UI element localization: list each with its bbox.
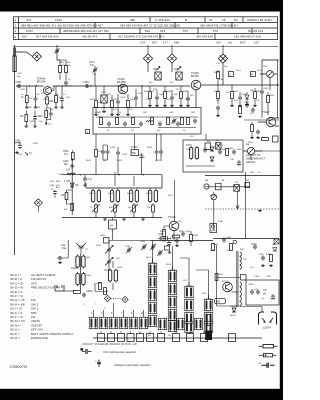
- right rail y120: [244, 119, 279, 121]
- trim box L402: [251, 72, 256, 77]
- varicap pair: [76, 243, 86, 254]
- svg-text:436 879 549: 436 879 549: [196, 35, 213, 39]
- svg-text:4,7μH: 4,7μH: [64, 181, 71, 183]
- module pin 1: [86, 130, 90, 134]
- svg-text:GR30: GR30: [230, 315, 236, 317]
- slug square 3: [118, 334, 125, 342]
- resistor R453: [25, 115, 28, 122]
- svg-text:SK-R =: SK-R =: [10, 336, 20, 340]
- svg-text:S404: S404: [146, 193, 152, 195]
- resistor R307: [212, 244, 215, 251]
- svg-text:4,7p: 4,7p: [88, 179, 93, 181]
- svg-text:185 348 040 27 419: 185 348 040 27 419: [234, 35, 261, 39]
- svg-text:C476: C476: [137, 93, 143, 95]
- wire T2 out down: [141, 86, 143, 108]
- wire inside box lower: [98, 127, 196, 129]
- svg-text:178: 178: [140, 40, 145, 44]
- resistor R403: [231, 92, 234, 99]
- svg-text:SK-K: SK-K: [202, 293, 208, 295]
- svg-text:R401: R401: [214, 72, 220, 74]
- legend capacitor symbol: [262, 363, 275, 368]
- capacitor C486 inside: [176, 121, 180, 126]
- legend resistor symbol: [263, 345, 274, 348]
- box SK block: [216, 183, 222, 190]
- electrolytic capacitor symbol: [97, 360, 101, 368]
- svg-text:C465: C465: [15, 141, 21, 143]
- resistor R304 top right: [262, 138, 269, 141]
- slug square 9: [187, 334, 194, 342]
- resistor R401: [217, 72, 220, 79]
- riser x162 to IF rail: [161, 175, 163, 188]
- variable capacitor C1b: [107, 259, 111, 264]
- switch unit SK-4: [119, 317, 127, 328]
- resistor R483 inside: [167, 118, 170, 125]
- diamond small left: [104, 295, 110, 301]
- slug square 10: [201, 334, 208, 342]
- svg-text:BF195C: BF195C: [117, 80, 127, 84]
- svg-text:R492: R492: [166, 91, 172, 93]
- trimmer C453: [55, 48, 59, 53]
- svg-text:R307: R307: [213, 244, 219, 246]
- resistor R491: [149, 92, 152, 99]
- capacitor C494: [203, 147, 207, 152]
- resistor R493: [180, 92, 183, 99]
- grounds row3: [54, 106, 58, 109]
- pin numbers above: [91, 313, 144, 315]
- capacitor C496: [232, 149, 236, 154]
- svg-text:C433: C433: [125, 246, 131, 248]
- svg-text:EM: EM: [205, 180, 208, 182]
- svg-text:R491: R491: [144, 91, 150, 93]
- svg-text:523: 523: [160, 29, 165, 33]
- svg-text:SK-G: SK-G: [146, 257, 152, 259]
- connector circle left: [204, 184, 209, 189]
- IF transformer S404: [148, 189, 157, 203]
- switch column SK-I: [185, 286, 193, 297]
- slug square 4: [127, 334, 134, 342]
- staple arrows: [262, 318, 273, 323]
- capacitor C470 pair: [155, 149, 159, 154]
- trimmer C434: [142, 244, 146, 249]
- svg-text:AM/FM 1 BL W-BY: AM/FM 1 BL W-BY: [247, 18, 272, 22]
- svg-text:ADJUST TO: ADJUST TO: [246, 153, 260, 157]
- svg-text:TS427: TS427: [262, 110, 270, 114]
- right vertical x277.5: [277, 60, 279, 118]
- grounds T3 stage: [148, 104, 152, 107]
- electrolytic C332: [167, 241, 171, 247]
- junction dot on bus: [19, 142, 20, 143]
- rail continues: [213, 84, 279, 86]
- svg-text:S441: S441: [96, 245, 102, 247]
- box EA left: [205, 143, 211, 150]
- capacitor C401: [216, 105, 220, 110]
- capacitor C466 hanging: [101, 149, 105, 154]
- switch column SK-H: [168, 270, 176, 281]
- transistor T1: [44, 87, 52, 95]
- svg-text:R413: R413: [117, 160, 123, 162]
- transistor T2: [118, 84, 128, 94]
- svg-text:EXT: EXT: [240, 40, 246, 44]
- svg-text:C415: C415: [155, 160, 161, 162]
- grounds row1: [25, 106, 29, 109]
- resistor R462: [65, 193, 68, 200]
- resistor R455: [55, 96, 58, 103]
- svg-text:R311: R311: [218, 274, 224, 276]
- svg-text:C304: C304: [248, 284, 254, 286]
- capacitor C463: [70, 163, 74, 168]
- svg-text:BF194b: BF194b: [37, 81, 46, 84]
- svg-text:507 424 420 424: 507 424 420 424: [36, 35, 59, 39]
- svg-text:Film foil/polyester capacitor: Film foil/polyester capacitor: [104, 350, 137, 354]
- switch column SK-K: [204, 299, 212, 310]
- resistor R454b: [45, 111, 48, 118]
- wire full width under table: [14, 46, 279, 48]
- osc coil S443: [108, 269, 117, 283]
- capacitor C493: [186, 96, 190, 101]
- resistor R402: [217, 92, 220, 99]
- svg-text:AF117: AF117: [269, 117, 276, 120]
- svg-text:R403: R403: [233, 91, 239, 93]
- svg-text:C412: C412: [97, 151, 103, 153]
- rail y240 mid: [150, 240, 213, 242]
- resistor R421: [95, 205, 98, 212]
- svg-text:489 481+467 468 462 471 416: 489 481+467 468 462 471 416 457/436 434 …: [21, 23, 103, 27]
- AGC label cluster: [49, 181, 61, 191]
- mixer riser: [174, 180, 176, 221]
- box top right: [273, 136, 279, 142]
- transistor T4 driver: [266, 117, 276, 127]
- resistor R485 inside: [181, 118, 184, 125]
- risers above bottom row: [94, 303, 144, 317]
- electrolytic C306: [271, 294, 275, 300]
- svg-text:C455: C455: [43, 99, 49, 101]
- svg-text:BZX: BZX: [56, 181, 61, 183]
- capacitor C492: [170, 95, 174, 100]
- svg-text:GR: GR: [75, 185, 79, 187]
- wire diamonds down: [148, 63, 172, 72]
- IF transformer S401: [91, 189, 100, 203]
- capacitor C485 inside: [158, 121, 162, 126]
- svg-text:C464: C464: [49, 185, 55, 187]
- electrolytic C497: [237, 160, 241, 166]
- svg-text:S443: S443: [117, 267, 123, 269]
- wire T1 collector up: [52, 86, 73, 91]
- diamond small right: [122, 296, 128, 302]
- coil L473: [101, 95, 107, 103]
- capacitor C458a: [60, 97, 64, 102]
- small box 549b: [241, 275, 247, 281]
- resistor R335: [173, 235, 180, 238]
- svg-text:C473: C473: [120, 97, 126, 99]
- small box osc: [104, 238, 110, 244]
- svg-text:L2A: L2A: [66, 169, 71, 172]
- svg-text:P301: P301: [248, 142, 254, 144]
- trimmer arrow: [93, 68, 98, 73]
- riser module to mixer rail b: [134, 134, 136, 150]
- transformer core: [237, 251, 238, 307]
- grounds IF row: [103, 218, 107, 221]
- svg-text:R411: R411: [86, 160, 92, 162]
- svg-text:573: 573: [183, 29, 188, 33]
- output network box: [246, 280, 279, 305]
- svg-text:486: 486: [130, 18, 135, 22]
- svg-text:S472: S472: [168, 195, 174, 197]
- svg-text:C452: C452: [16, 82, 22, 84]
- resistor R406: [251, 125, 254, 132]
- svg-text:18: 18: [222, 18, 226, 22]
- wire pot to right: [255, 150, 280, 152]
- adjust arrows over cans: [156, 67, 160, 71]
- svg-text:L200/4: L200/4: [263, 327, 271, 330]
- headphone staple: [259, 312, 277, 325]
- module box to ratio box wire: [205, 134, 207, 140]
- arrow label: [25, 152, 28, 155]
- diode GR461: [70, 183, 74, 187]
- driver transistor T6: [223, 282, 233, 292]
- vertical chain wire: [71, 158, 73, 215]
- resistor R484 inside: [187, 118, 190, 125]
- resistor R443: [104, 288, 107, 295]
- svg-text:C496: C496: [236, 149, 242, 151]
- resistor R473: [111, 101, 114, 108]
- svg-text:SIGNAL: SIGNAL: [246, 160, 256, 164]
- slug square 11: [229, 334, 236, 342]
- svg-text:C462: C462: [58, 174, 64, 176]
- wire right col to T4: [262, 100, 268, 118]
- svg-text:C452: C452: [20, 89, 26, 91]
- variable capacitor C1a: [107, 247, 111, 252]
- svg-text:HA: HA: [263, 292, 267, 295]
- switch unit SK-5: [129, 317, 137, 328]
- svg-text:91a: 91a: [62, 247, 67, 250]
- resistor R431: [163, 230, 166, 237]
- IF can S471: [176, 72, 182, 80]
- svg-text:C414: C414: [122, 154, 128, 156]
- arrow S403: [130, 204, 138, 212]
- svg-text:C394: C394: [251, 244, 257, 246]
- electrolytic can C310: [207, 315, 210, 326]
- diode GR472: [210, 157, 214, 161]
- slug square 8: [173, 334, 180, 342]
- svg-text:(A): (A): [228, 40, 232, 44]
- IF can S470: [155, 72, 161, 80]
- capacitor C403: [238, 95, 242, 100]
- junction dots rail: [90, 85, 91, 86]
- svg-text:R472: R472: [90, 99, 96, 101]
- svg-text:C310: C310: [206, 312, 212, 314]
- main rail y86: [53, 85, 190, 87]
- capacitor C308: [261, 255, 265, 260]
- wire T6 collector: [232, 291, 239, 293]
- switch unit SK-1: [89, 317, 97, 328]
- label box AD161: [215, 298, 226, 304]
- svg-text:L440: L440: [85, 257, 91, 259]
- svg-text:SK-I: SK-I: [183, 280, 188, 282]
- resistor R456 top: [59, 66, 62, 73]
- rail y175.5 right: [205, 175, 280, 177]
- ratio box down wire: [245, 172, 247, 239]
- svg-text:P401: P401: [263, 66, 269, 68]
- svg-text:368 340/4743 17/98 305 417: 368 340/4743 17/98 305 417: [200, 23, 239, 27]
- svg-text:475: 475: [26, 18, 31, 22]
- capacitor C441: [57, 256, 62, 260]
- svg-text:R474: R474: [130, 99, 136, 101]
- resistor R474: [127, 101, 130, 108]
- inline capacitor C331: [164, 236, 169, 240]
- transistor T5 mixer: [169, 221, 179, 231]
- capacitor C457: [49, 111, 53, 116]
- slug square 5: [137, 334, 144, 342]
- resistor R404: [254, 92, 257, 99]
- svg-text:548: 548: [174, 40, 179, 44]
- svg-text:(7): (7): [51, 189, 54, 191]
- svg-text:1054: 1054: [26, 29, 33, 33]
- capacitor C333: [175, 238, 179, 243]
- slug square 6: [147, 334, 154, 342]
- pot P302: [211, 194, 217, 200]
- resistor R463: [71, 204, 74, 211]
- wire right column: [262, 60, 279, 90]
- svg-text:1/4A: 1/4A: [218, 220, 223, 223]
- capacitor C482 inside: [123, 121, 127, 126]
- switch unit SK-3: [109, 317, 117, 328]
- svg-text:R451: R451: [27, 107, 33, 109]
- svg-text:C434: C434: [140, 241, 146, 243]
- switch column SK-G: [148, 263, 156, 274]
- box with X: [234, 185, 240, 192]
- svg-text:416 90 474: 416 90 474: [82, 35, 97, 39]
- capacitor C483 inside: [139, 121, 143, 126]
- svg-text:C50a: C50a: [63, 151, 69, 153]
- trimmer C487 inside: [172, 118, 176, 123]
- transistor T3: [191, 80, 201, 90]
- rail y217.5 ground rail: [62, 217, 162, 219]
- capacitor C408: [83, 176, 87, 181]
- svg-text:R493: R493: [183, 91, 189, 93]
- capacitor C406: [256, 129, 260, 134]
- wire jack feed: [240, 307, 262, 313]
- IF transformer S402: [110, 189, 119, 203]
- resistor R492: [164, 92, 167, 99]
- svg-text:CM: CM: [216, 40, 221, 44]
- resistor R495: [226, 149, 229, 156]
- osc coil S442: [76, 272, 85, 286]
- riser module to mixer rail c: [157, 134, 162, 145]
- svg-text:PRE SELECTION FM: PRE SELECTION FM: [31, 286, 61, 290]
- svg-text:177: 177: [163, 40, 168, 44]
- switch unit SK-6: [139, 317, 147, 328]
- resistor R451: [25, 96, 28, 103]
- capacitor C484 inline: [84, 84, 89, 88]
- capacitor C481 inside: [107, 121, 111, 126]
- risers IF row up: [115, 172, 134, 186]
- fuse box: [210, 224, 217, 233]
- small box right: [245, 182, 250, 187]
- wire mixer down: [173, 231, 175, 241]
- svg-text:S401: S401: [89, 193, 95, 195]
- rail y174.7: [62, 174, 162, 176]
- capacitor C456a: [34, 96, 38, 101]
- resistor R432: [190, 235, 193, 242]
- svg-text:C463: C463: [63, 161, 69, 163]
- diode GR305: [232, 308, 236, 312]
- trimmer C433: [127, 247, 131, 252]
- emitter resistor R454: [46, 97, 49, 104]
- capacitor C307: [222, 237, 226, 242]
- svg-text:R461: R461: [33, 143, 39, 145]
- resistor R423: [133, 205, 136, 212]
- slug square 1: [98, 334, 105, 342]
- svg-text:489/454/305 483 340 327 417 53: 489/454/305 483 340 327 417 532: [63, 29, 109, 33]
- box with X top right: [274, 239, 279, 244]
- slug square 2: [108, 334, 115, 342]
- capacitor C491: [155, 95, 159, 100]
- capacitor C467 hanging: [106, 149, 110, 154]
- coil L481 inside: [100, 118, 103, 125]
- fuse circle: [233, 240, 236, 243]
- svg-text:S402: S402: [108, 193, 114, 195]
- svg-text:AFC: AFC: [56, 186, 61, 189]
- svg-text:S442: S442: [86, 275, 92, 277]
- connector diamond M3: [167, 54, 176, 63]
- capacitor C495: [218, 149, 222, 154]
- resistor R457 top: [65, 66, 68, 73]
- capacitor C476: [134, 95, 138, 100]
- arrow S402: [111, 204, 119, 212]
- svg-text:C491: C491: [159, 94, 165, 96]
- ground left: [15, 151, 19, 154]
- svg-text:427 415/640 274 136 434 679 54: 427 415/640 274 136 434 679 541: [118, 35, 164, 39]
- dark block: [205, 331, 212, 341]
- coil L482 inside: [151, 118, 154, 125]
- svg-text:GR471: GR471: [216, 145, 224, 147]
- pot R301 volume: [247, 147, 254, 154]
- grounds under T2: [94, 113, 98, 116]
- rail y186.8: [205, 186, 250, 188]
- capacitor C304: [250, 289, 254, 294]
- capacitor C473: [116, 99, 120, 104]
- wire down w arrow: [236, 191, 239, 209]
- box EB: [216, 143, 222, 150]
- svg-text:OSC: OSC: [116, 258, 121, 260]
- svg-text:427: 427: [22, 35, 27, 39]
- svg-text:C494: C494: [186, 149, 192, 151]
- vertical feed x216.5: [216, 245, 218, 300]
- connector M1 diamond: [32, 52, 41, 61]
- box 549: [165, 246, 170, 250]
- capacitor C471: [93, 67, 97, 72]
- svg-text:C405: C405: [263, 88, 269, 90]
- resistor R422: [114, 205, 117, 212]
- dashed link: [111, 298, 122, 300]
- riser wires to columns: [153, 241, 209, 300]
- svg-text:C431: C431: [185, 231, 191, 233]
- svg-text:C413: C413: [110, 147, 116, 149]
- svg-text:S472: S472: [186, 144, 192, 147]
- svg-text:R495: R495: [228, 148, 234, 150]
- capacitor C442: [82, 292, 86, 297]
- svg-text:580: 580: [132, 152, 137, 155]
- resistor R465: [71, 153, 74, 160]
- capacitor C305: [256, 289, 260, 294]
- svg-text:S473: S473: [101, 92, 107, 94]
- output transformer primary: [240, 252, 242, 270]
- svg-text:532: 532: [145, 29, 150, 33]
- film capacitor symbol: [82, 349, 92, 354]
- svg-text:L411: L411: [140, 157, 145, 159]
- capacitor C431: [181, 231, 185, 236]
- resistor R407: [239, 107, 242, 114]
